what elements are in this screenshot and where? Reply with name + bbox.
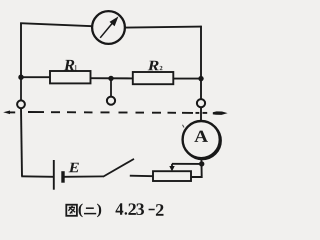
wire top horizontal left (corner to galvanometer) [20,23,92,26]
rheostat slider bar [172,163,202,165]
dashed boundary line [28,111,207,114]
resistor R1 [50,71,91,83]
terminal T2 (open circle) [107,97,115,105]
wire T1 down to bottom-left corner [21,108,22,176]
wire bottom-left corner to battery [21,175,54,178]
wire between R1 and R2 [91,77,134,79]
wire left vertical (top corner to R1-row junction) [20,23,22,78]
wire ammeter bottom to rheostat corner [191,158,202,177]
ammeter A [183,121,221,159]
label E [69,163,79,173]
left arrow of dashed line [3,111,15,115]
caption: glyph 二 [84,208,96,213]
wire stub to terminal T2 [110,78,112,96]
caption: glyph 图 [66,205,77,216]
rheostat body [153,171,191,181]
wire switch to rheostat [130,175,154,178]
junction dot left (node at R1 row) [18,75,23,80]
caption: ( [79,204,83,218]
caption: 4.23-2 [116,203,164,216]
label R1 [64,60,75,71]
junction dot below ammeter [199,161,204,166]
terminal T3 (open circle) [197,99,205,107]
junction dot right (node at R2 row) [198,76,203,81]
speckle near ammeter [183,125,185,128]
wire R-row left (junction to R1) [21,76,51,78]
wire battery to switch pivot [64,175,104,177]
switch blade [103,159,134,177]
rheostat slider arrow [169,164,174,172]
wire stub junction to terminal T1 [20,77,22,100]
wire R2 right to right vertical [173,78,201,80]
wire top horizontal right (galvanometer to top-right corner) [125,27,202,28]
galvanometer G [92,11,125,44]
wire T3 down to ammeter [200,107,202,121]
junction dot middle (node above terminal T2) [108,76,113,81]
battery E [54,160,63,190]
caption: ) [97,204,101,218]
resistor R2 [133,72,174,84]
wire right vertical (top corner down to terminal T3) [200,26,202,100]
right arrow blob of dashed line [213,111,228,115]
terminal T1 (open circle) [17,100,25,108]
label R2 [148,61,159,71]
